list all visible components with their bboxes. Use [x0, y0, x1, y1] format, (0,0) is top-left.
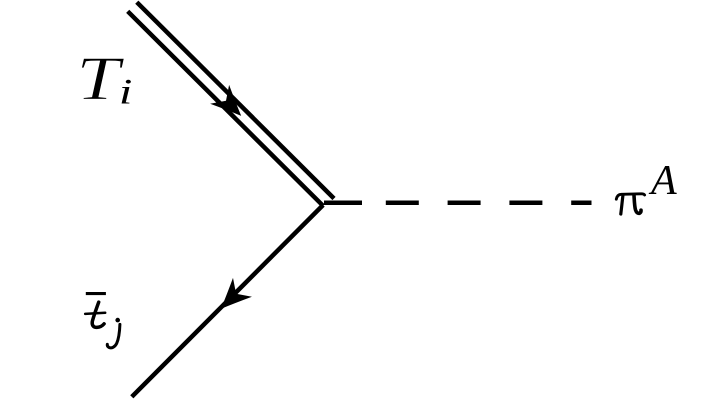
svg-text:i: i [119, 72, 133, 112]
double line T propagator outer stroke [137, 2, 334, 198]
arrow on T line [210, 85, 251, 126]
arrow on tbar line [211, 278, 252, 319]
dash 5 [571, 200, 591, 205]
double line T propagator inner stroke [128, 11, 323, 206]
label tbar_j : subscript j [115, 318, 120, 323]
dash 3 [448, 200, 481, 205]
label tbar_j : t [92, 302, 104, 327]
label tbar_j : overbar [86, 292, 106, 295]
svg-text:A: A [648, 158, 677, 204]
fermion line tbar [132, 205, 323, 397]
label pi^A : pi [616, 194, 644, 199]
dashed scalar line pi: dash 1 [324, 200, 362, 205]
dash 2 [386, 200, 419, 205]
svg-text:T: T [76, 44, 124, 113]
dash 4 [509, 200, 542, 205]
